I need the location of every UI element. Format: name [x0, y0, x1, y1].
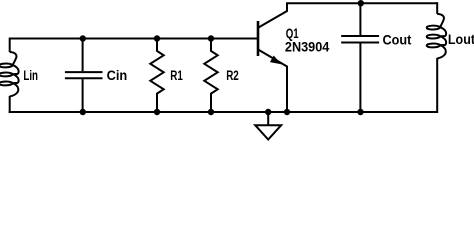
- inductor L1 coil (Lin): [0, 52, 19, 97]
- transistor Q1 emitter lead: [259, 50, 288, 112]
- ground stem: [267, 112, 269, 125]
- svg-text:R1: R1: [170, 67, 183, 83]
- wire: base net top rail: [10, 38, 258, 40]
- ground triangle: [255, 125, 281, 139]
- junction node: Cin bottom: [80, 109, 86, 115]
- junction node: Cout top: [358, 0, 364, 6]
- junction node: emitter bottom: [284, 109, 290, 115]
- resistor R2 zigzag: [204, 39, 217, 113]
- junction node: Cin top: [80, 35, 86, 41]
- capacitor Cin top lead: [82, 39, 84, 72]
- wire: right vertical bottom (Lout bottom lead): [436, 58, 438, 113]
- svg-text:Lin: Lin: [23, 69, 38, 84]
- capacitor Cin plates: [65, 72, 103, 78]
- wire: right vertical top (Lout top lead): [436, 2, 438, 14]
- capacitor Cout bottom lead: [359, 44, 361, 113]
- junction node: R2 bottom: [208, 109, 214, 115]
- wire: left vertical top (Lin top lead): [9, 38, 11, 53]
- junction node: R1 top: [154, 35, 160, 41]
- transistor Q1 base bar: [257, 21, 260, 56]
- svg-text:Lout: Lout: [448, 31, 474, 47]
- wire: collector net top rail: [286, 2, 437, 4]
- svg-text:2N3904: 2N3904: [285, 39, 330, 54]
- svg-text:R2: R2: [226, 67, 239, 83]
- junction node: ground tap: [265, 109, 271, 115]
- capacitor Cout plates: [341, 36, 379, 43]
- junction node: Cout bottom: [357, 109, 363, 115]
- junction node: R1 bottom: [154, 109, 160, 115]
- junction node: R2 top: [208, 35, 214, 41]
- svg-text:Cin: Cin: [107, 68, 128, 83]
- svg-text:Cout: Cout: [383, 32, 412, 47]
- wire: left vertical bottom (Lin bottom lead): [9, 96, 11, 113]
- capacitor Cout top lead: [359, 3, 361, 35]
- transistor Q1 collector lead: [259, 3, 288, 27]
- wire: bottom ground rail: [9, 111, 438, 113]
- inductor L2 coil (Lout): [427, 14, 446, 59]
- transistor Q1 emitter arrow: [270, 56, 281, 65]
- capacitor Cin bottom lead: [82, 79, 84, 112]
- resistor R1 zigzag: [150, 39, 163, 113]
